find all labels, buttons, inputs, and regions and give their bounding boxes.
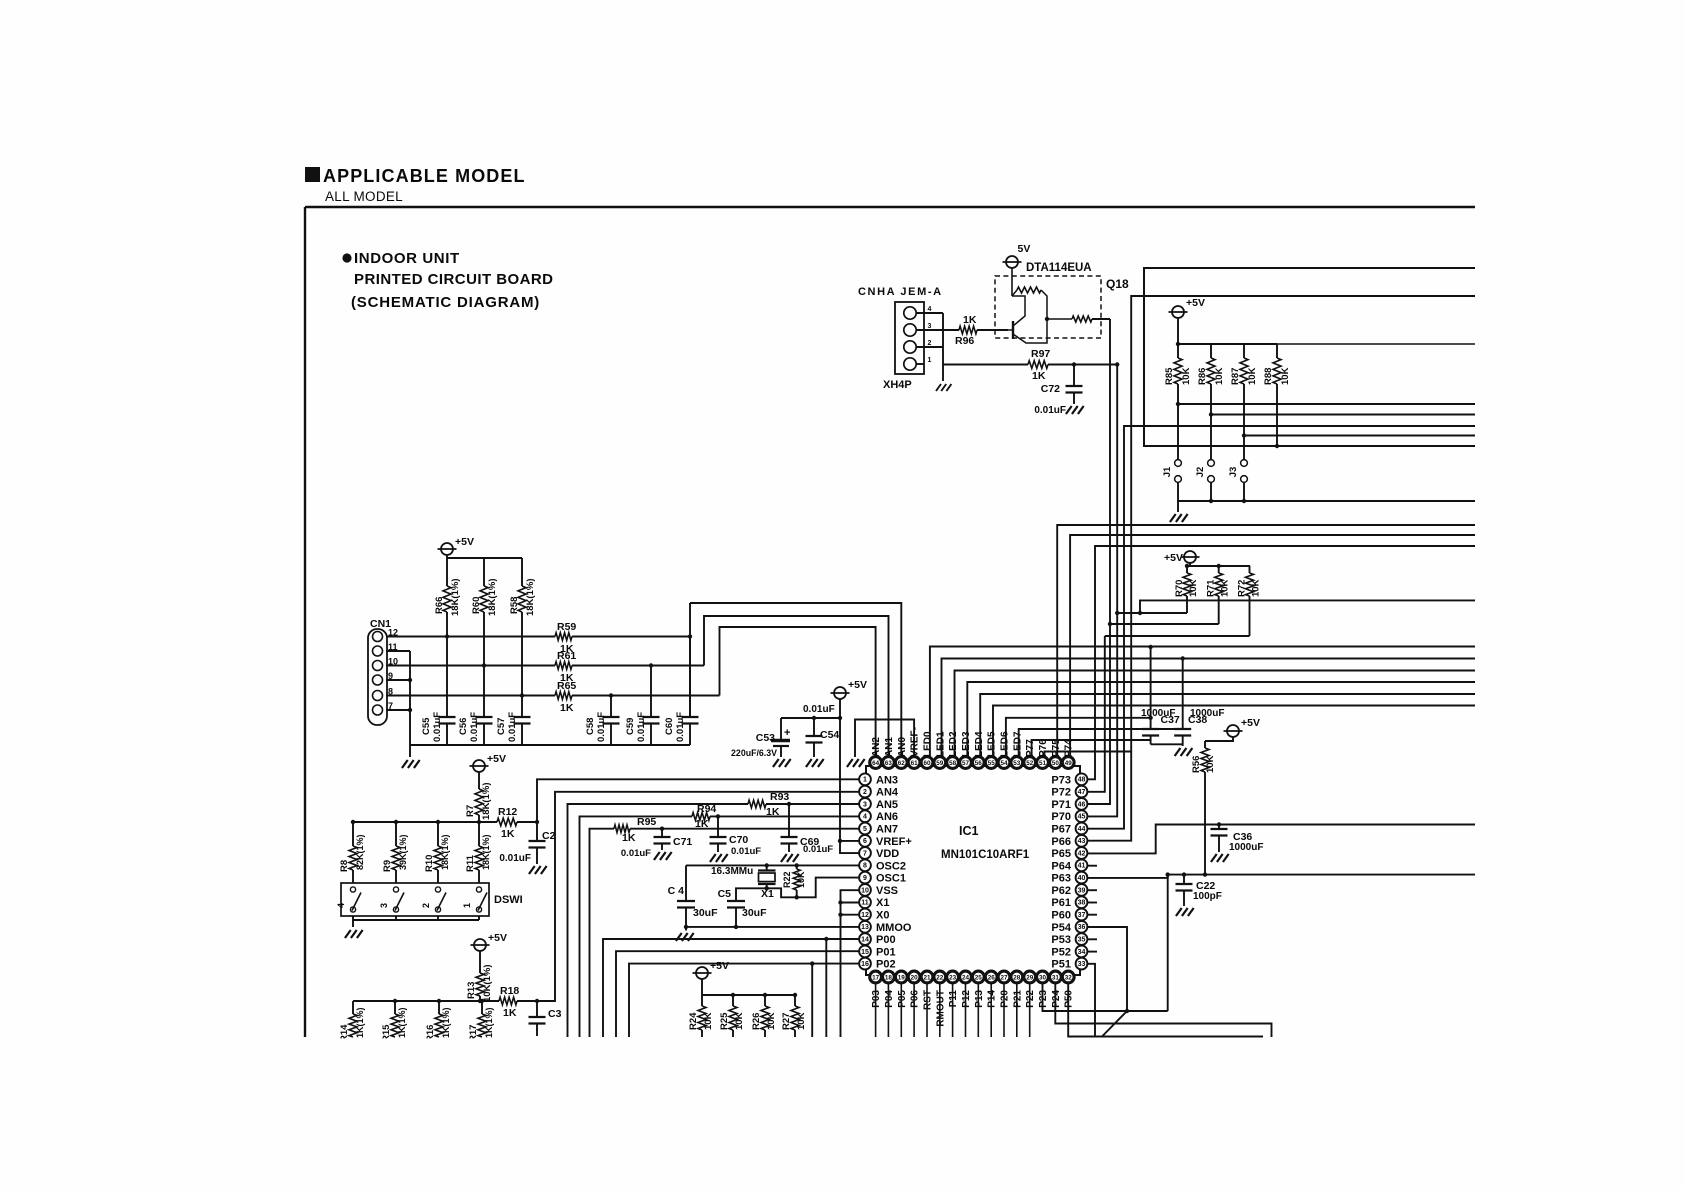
wire 5V into Q18 xyxy=(1011,268,1013,296)
svg-text:51: 51 xyxy=(1039,760,1047,767)
wire MMOD/ground rail xyxy=(686,926,860,928)
wire P66 net xyxy=(1087,296,1475,841)
svg-text:18K(1%): 18K(1%) xyxy=(525,579,536,617)
svg-text:18K(1%): 18K(1%) xyxy=(450,579,461,617)
IC1 left pins 1-16 xyxy=(859,773,912,970)
svg-text:0.01uF: 0.01uF xyxy=(675,712,686,742)
svg-text:28: 28 xyxy=(1013,974,1021,981)
resistor R59 1K xyxy=(555,633,572,641)
svg-text:X1: X1 xyxy=(876,897,889,909)
wire P02 branch down xyxy=(811,964,813,1037)
svg-text:1K(1%): 1K(1%) xyxy=(397,1007,407,1038)
svg-text:61: 61 xyxy=(911,760,919,767)
resistor R13 10K(1%) xyxy=(479,951,481,973)
junction (611,695.5) xyxy=(609,693,613,697)
resistor R7 18K(1%) xyxy=(478,772,480,789)
svg-text:P01: P01 xyxy=(876,946,896,958)
svg-text:R13: R13 xyxy=(466,982,477,999)
wire P76 net xyxy=(1044,752,1131,757)
svg-text:0.01uF: 0.01uF xyxy=(731,846,761,857)
ground xyxy=(806,759,812,767)
svg-text:P06: P06 xyxy=(910,990,921,1008)
svg-text:C3: C3 xyxy=(548,1008,562,1020)
wire XH4P pin stubs to ground bus xyxy=(916,312,943,314)
junction (826.3,939) xyxy=(824,937,828,941)
svg-text:P03: P03 xyxy=(871,990,882,1008)
resistor R25 10K xyxy=(732,995,734,1006)
svg-text:C60: C60 xyxy=(664,718,675,735)
ground xyxy=(345,930,351,938)
svg-text:AN1: AN1 xyxy=(884,737,895,757)
svg-text:10K: 10K xyxy=(1214,367,1225,385)
connector CN1 pin 11 xyxy=(373,646,383,656)
wire LED5 net xyxy=(993,706,1475,757)
svg-text:P02: P02 xyxy=(876,959,896,971)
svg-text:100pF: 100pF xyxy=(1193,891,1222,902)
svg-text:P71: P71 xyxy=(1051,799,1071,811)
svg-text:+: + xyxy=(784,727,790,739)
svg-text:P24: P24 xyxy=(1051,990,1062,1008)
svg-text:10K: 10K xyxy=(1220,579,1231,597)
power +5V R7 xyxy=(473,760,485,772)
svg-text:R70: R70 xyxy=(1174,580,1185,597)
svg-text:R88: R88 xyxy=(1263,368,1274,385)
svg-text:10K(1%): 10K(1%) xyxy=(482,965,493,1003)
svg-text:P20: P20 xyxy=(1000,990,1011,1008)
connector CN1 body xyxy=(368,629,387,725)
connector XH4P pin 1 xyxy=(904,358,916,370)
svg-text:CNHA JEM-A: CNHA JEM-A xyxy=(858,286,943,298)
power +5V rail R85-R88 xyxy=(1172,306,1184,318)
svg-text:(SCHEMATIC DIAGRAM): (SCHEMATIC DIAGRAM) xyxy=(351,294,540,311)
capacitor C37 1000uF xyxy=(1150,647,1152,729)
svg-text:C37: C37 xyxy=(1161,714,1180,726)
wire AN6 line xyxy=(580,816,693,1037)
svg-text:10K: 10K xyxy=(703,1012,714,1030)
wire CN1 pin10 line xyxy=(386,665,555,667)
svg-text:P51: P51 xyxy=(1051,959,1071,971)
svg-text:P67: P67 xyxy=(1051,824,1071,836)
svg-text:54: 54 xyxy=(1000,760,1008,767)
wire P00 net xyxy=(603,939,860,1037)
ground xyxy=(676,933,682,941)
wire P74 net xyxy=(1070,535,1475,757)
svg-text:C57: C57 xyxy=(496,718,507,735)
capacitor C60 0.01uF xyxy=(689,637,691,718)
svg-text:P70: P70 xyxy=(1051,811,1071,823)
wire P24 net xyxy=(1055,983,1271,1037)
svg-text:P54: P54 xyxy=(1051,922,1071,934)
junction (840.5,914.7) xyxy=(838,913,842,917)
junction (765,995) xyxy=(763,993,767,997)
switch DSW1 body xyxy=(341,883,489,916)
resistor R12 1K xyxy=(497,818,517,826)
wire R70 to P70 line xyxy=(1117,612,1187,614)
svg-text:OSC2: OSC2 xyxy=(876,860,906,872)
svg-text:1K(1%): 1K(1%) xyxy=(441,1007,451,1038)
svg-text:22: 22 xyxy=(936,974,944,981)
resistor R26 10K xyxy=(764,995,766,1006)
capacitor C38 1000uF xyxy=(1182,658,1184,729)
resistor R65 1K xyxy=(555,692,572,700)
svg-text:P13: P13 xyxy=(974,990,985,1008)
capacitor C22 100pF xyxy=(1183,875,1185,884)
svg-text:R93: R93 xyxy=(770,791,789,803)
svg-text:33: 33 xyxy=(1078,961,1086,968)
svg-text:18K(1%): 18K(1%) xyxy=(440,834,450,870)
svg-text:62: 62 xyxy=(898,760,906,767)
svg-text:R59: R59 xyxy=(557,621,576,633)
transistor Q18 body xyxy=(1012,321,1014,339)
svg-text:Q18: Q18 xyxy=(1106,277,1129,291)
junction (840.5,902.5) xyxy=(838,900,842,904)
capacitor C59 0.01uF xyxy=(650,666,652,718)
svg-text:39K(1%): 39K(1%) xyxy=(398,834,408,870)
wire VDD net xyxy=(840,699,860,853)
junction (1127,1011) xyxy=(1125,1009,1129,1013)
header black square xyxy=(305,167,320,182)
svg-text:R66: R66 xyxy=(434,597,445,614)
resistor R10 18K(1%) xyxy=(437,822,439,846)
svg-text:18K(1%): 18K(1%) xyxy=(481,834,491,870)
svg-text:MMOO: MMOO xyxy=(876,922,912,934)
junction (840,840.9) xyxy=(838,839,842,843)
wire R97 to bus xyxy=(1048,364,1117,366)
svg-text:1K: 1K xyxy=(501,828,515,840)
svg-text:55: 55 xyxy=(988,760,996,767)
wire AN2 line xyxy=(720,627,876,757)
resistor R61 1K xyxy=(555,662,572,670)
junction (1110,624) xyxy=(1108,622,1112,626)
svg-text:18K(1%): 18K(1%) xyxy=(487,579,498,617)
wire Q18 output xyxy=(1092,318,1110,320)
svg-text:30: 30 xyxy=(1039,974,1047,981)
svg-text:1K: 1K xyxy=(963,314,977,326)
svg-text:OSC1: OSC1 xyxy=(876,873,906,885)
junction (410,680) xyxy=(408,678,412,682)
junction (651,665.5) xyxy=(649,663,653,667)
svg-text:10K: 10K xyxy=(796,871,806,888)
svg-text:DSWI: DSWI xyxy=(494,894,523,906)
svg-text:17: 17 xyxy=(872,974,880,981)
svg-text:3: 3 xyxy=(379,903,389,908)
switch DSW1 pole 2 xyxy=(435,887,440,892)
frame border top xyxy=(305,206,1475,208)
resistor R60 18K(1%) xyxy=(483,558,485,586)
junction (1074,364.5) xyxy=(1072,362,1076,366)
svg-text:P14: P14 xyxy=(987,990,998,1008)
svg-text:0.01uF: 0.01uF xyxy=(499,853,531,864)
junction (480,1001) xyxy=(478,999,482,1003)
crystal X1 xyxy=(766,865,768,870)
wire AN7 line xyxy=(590,829,615,1037)
ground xyxy=(1170,514,1176,522)
capacitor C5 30uF xyxy=(727,900,745,902)
svg-text:47: 47 xyxy=(1078,789,1086,796)
junction (1140,613) xyxy=(1138,611,1142,615)
svg-text:1K(1%): 1K(1%) xyxy=(484,1007,494,1038)
svg-text:10K: 10K xyxy=(1181,367,1192,385)
wire CN1 pin11 to ground bus xyxy=(386,650,410,652)
wire R59 to AN0 riser xyxy=(572,636,690,638)
power +5V VDD xyxy=(834,687,846,699)
svg-text:P62: P62 xyxy=(1051,885,1071,897)
capacitor C56 0.01uF xyxy=(483,666,485,718)
svg-text:13: 13 xyxy=(861,924,869,931)
capacitor C58 0.01uF xyxy=(610,696,612,718)
svg-text:C54: C54 xyxy=(820,729,839,741)
svg-text:2: 2 xyxy=(928,340,932,347)
wire +5V rail tail xyxy=(1277,343,1475,345)
frame border left xyxy=(304,207,306,1037)
svg-text:0.01uF: 0.01uF xyxy=(803,704,835,715)
svg-text:56: 56 xyxy=(975,760,983,767)
wire bypass rail xyxy=(781,717,840,719)
svg-text:P73: P73 xyxy=(1051,774,1071,786)
capacitor C57 0.01uF xyxy=(521,696,523,718)
wire R65 to AN2 riser xyxy=(572,695,720,697)
resistor R14 1K(1%) xyxy=(352,1001,354,1014)
svg-text:P65: P65 xyxy=(1051,848,1071,860)
wire VREF- to ground xyxy=(855,720,914,758)
svg-text:52: 52 xyxy=(1026,760,1034,767)
svg-text:+5V: +5V xyxy=(455,536,474,548)
svg-text:APPLICABLE MODEL: APPLICABLE MODEL xyxy=(323,166,526,186)
jumper J1 xyxy=(1175,460,1182,467)
svg-text:R26: R26 xyxy=(751,1013,762,1030)
svg-text:0.01uF: 0.01uF xyxy=(432,712,443,742)
svg-text:16: 16 xyxy=(861,961,869,968)
svg-text:59: 59 xyxy=(936,760,944,767)
svg-text:R87: R87 xyxy=(1230,368,1241,385)
wire R95 to IC pin5 xyxy=(630,828,860,830)
resistor R86 10K xyxy=(1210,344,1212,358)
wire R97 net down to P70 xyxy=(1087,365,1117,817)
junction (766.7,865.4) xyxy=(765,863,769,867)
junction (439,1001) xyxy=(437,999,441,1003)
svg-text:0.01uF: 0.01uF xyxy=(1034,405,1066,416)
svg-text:35: 35 xyxy=(1078,937,1086,944)
svg-text:3: 3 xyxy=(928,323,932,330)
wire LED0 net xyxy=(930,647,1475,757)
switch DSW1 pole 3 xyxy=(393,887,398,892)
wire P50 net xyxy=(1068,983,1263,1037)
svg-text:P64: P64 xyxy=(1051,860,1071,872)
ground xyxy=(654,852,660,860)
wire AN0 line xyxy=(690,603,901,757)
svg-text:VSS: VSS xyxy=(876,885,898,897)
junction (1167.7,874.6) xyxy=(1166,872,1170,876)
wire OSC1 line xyxy=(736,878,860,901)
svg-text:18: 18 xyxy=(885,974,893,981)
svg-text:C 4: C 4 xyxy=(668,885,685,897)
IC1 top pins 64-49 xyxy=(870,727,1075,768)
wire CN1 ground rail xyxy=(410,744,690,746)
svg-text:0.01uF: 0.01uF xyxy=(507,712,518,742)
junction (733,995) xyxy=(731,993,735,997)
wire P52 stub xyxy=(1087,951,1097,953)
power +5V R70-R72 xyxy=(1184,551,1196,563)
wire P60 stub xyxy=(1087,914,1097,916)
svg-text:40: 40 xyxy=(1078,875,1086,882)
svg-text:P72: P72 xyxy=(1051,787,1071,799)
ground xyxy=(1066,406,1072,414)
svg-text:23: 23 xyxy=(949,974,957,981)
svg-text:VDD: VDD xyxy=(876,848,899,860)
svg-text:VREF+: VREF+ xyxy=(876,836,912,848)
junction (395,1001) xyxy=(393,999,397,1003)
svg-text:10: 10 xyxy=(861,887,869,894)
capacitor C72 0.01uF xyxy=(1073,365,1075,387)
svg-text:11: 11 xyxy=(861,900,869,907)
ground xyxy=(773,759,779,767)
resistor R27 10K xyxy=(794,995,796,1006)
svg-text:R94: R94 xyxy=(697,803,716,815)
wire Q18 output net down to P71 xyxy=(1087,319,1110,804)
svg-text:P04: P04 xyxy=(884,990,895,1008)
svg-text:INDOOR UNIT: INDOOR UNIT xyxy=(354,250,460,267)
wire P51 net xyxy=(1087,964,1095,1037)
junction (736,926.9) xyxy=(734,925,738,929)
wire AN3 rail xyxy=(353,821,497,823)
wire P62 stub xyxy=(1087,889,1097,891)
svg-text:31: 31 xyxy=(1052,974,1060,981)
IC1 right pins 48-33 xyxy=(1051,773,1087,970)
svg-text:R72: R72 xyxy=(1237,580,1248,597)
resistor R8 82K(1%) xyxy=(352,822,354,846)
svg-text:0.01uF: 0.01uF xyxy=(636,712,647,742)
svg-text:2: 2 xyxy=(863,789,867,796)
capacitor C70 0.01uF xyxy=(717,816,719,837)
svg-text:C53: C53 xyxy=(756,732,775,744)
svg-text:P12: P12 xyxy=(961,990,972,1008)
svg-text:10K: 10K xyxy=(734,1012,745,1030)
svg-text:10K: 10K xyxy=(766,1012,777,1030)
resistor R88 10K xyxy=(1276,344,1278,358)
svg-text:34: 34 xyxy=(1078,949,1086,956)
junction (353,822) xyxy=(351,820,355,824)
wire R12 to C2 node xyxy=(517,821,537,823)
connector XH4P body xyxy=(895,302,924,374)
wire R18 to C3 node xyxy=(517,1000,537,1002)
wire LED3 net xyxy=(967,682,1475,757)
svg-text:1K: 1K xyxy=(503,1007,517,1019)
resistor R17 1K(1%) xyxy=(481,1001,483,1014)
wire P53 stub xyxy=(1087,938,1097,940)
svg-text:4: 4 xyxy=(336,903,346,908)
svg-text:+5V: +5V xyxy=(1241,717,1260,729)
svg-text:R12: R12 xyxy=(498,806,517,818)
svg-text:1: 1 xyxy=(928,357,932,364)
capacitor C4 30uF xyxy=(685,865,687,901)
connector CN1 pin 10 xyxy=(373,661,383,671)
svg-text:7: 7 xyxy=(863,850,867,857)
svg-text:18K(1%): 18K(1%) xyxy=(481,783,492,821)
svg-text:30uF: 30uF xyxy=(693,907,718,919)
junction (1205,874.6) xyxy=(1203,872,1207,876)
wire XH4P pin1 to R97 xyxy=(916,363,924,365)
svg-text:R61: R61 xyxy=(557,650,576,662)
resistor R70 10K xyxy=(1186,566,1188,573)
resistor R97 1K xyxy=(1028,361,1048,369)
svg-text:C58: C58 xyxy=(585,718,596,735)
ground xyxy=(1211,854,1217,862)
svg-text:24: 24 xyxy=(962,974,970,981)
resistor R18 1K xyxy=(499,997,517,1005)
svg-text:LED0: LED0 xyxy=(923,731,934,757)
junction (662,828.7) xyxy=(660,827,664,831)
svg-text:J3: J3 xyxy=(1228,467,1239,478)
svg-text:20: 20 xyxy=(911,974,919,981)
junction (796.7,897.3) xyxy=(795,895,799,899)
svg-text:IC1: IC1 xyxy=(959,824,979,838)
svg-text:P53: P53 xyxy=(1051,934,1071,946)
svg-text:0.01uF: 0.01uF xyxy=(469,712,480,742)
wire R86 to J2 and bus xyxy=(1210,384,1212,460)
svg-text:43: 43 xyxy=(1078,838,1086,845)
svg-text:AN3: AN3 xyxy=(876,774,898,786)
junction (1277,446) xyxy=(1275,444,1279,448)
svg-text:R25: R25 xyxy=(719,1012,730,1030)
svg-text:R58: R58 xyxy=(509,597,520,614)
wire P61 stub xyxy=(1087,902,1097,904)
connector CN1 pin 12 xyxy=(373,632,383,642)
resistor R11 18K(1%) xyxy=(478,822,480,846)
svg-text:J2: J2 xyxy=(1195,467,1206,478)
svg-text:AN5: AN5 xyxy=(876,799,898,811)
svg-text:R95: R95 xyxy=(637,816,656,828)
wire XH4P pin3 to R96 xyxy=(916,329,959,331)
svg-text:C71: C71 xyxy=(673,836,692,848)
resistor R85 10K xyxy=(1177,344,1179,358)
svg-text:27: 27 xyxy=(1000,974,1008,981)
svg-text:10K: 10K xyxy=(1188,579,1199,597)
jumper J3 xyxy=(1241,460,1248,467)
connector CN1 pin 8 xyxy=(373,691,383,701)
junction (814,718) xyxy=(812,716,816,720)
svg-text:10K: 10K xyxy=(1251,579,1262,597)
svg-text:P50: P50 xyxy=(1064,990,1075,1008)
wire P67 net xyxy=(1087,426,1475,829)
resistor Q18 internal collector xyxy=(1072,316,1092,322)
svg-text:C72: C72 xyxy=(1041,383,1060,395)
svg-text:R86: R86 xyxy=(1197,368,1208,385)
svg-text:63: 63 xyxy=(885,760,893,767)
junction (484,665.5) xyxy=(482,663,486,667)
svg-text:J1: J1 xyxy=(1162,466,1173,477)
connector XH4P pin 2 xyxy=(904,341,916,353)
svg-text:41: 41 xyxy=(1078,863,1086,870)
ground xyxy=(847,759,853,767)
resistor R96 1K xyxy=(959,326,977,334)
svg-text:10K: 10K xyxy=(1205,755,1216,773)
resistor R66 18K(1%) xyxy=(446,558,448,586)
wire R94 to IC pin4 xyxy=(710,815,860,817)
svg-text:P21: P21 xyxy=(1012,990,1023,1008)
svg-text:36: 36 xyxy=(1078,924,1086,931)
junction (1218.7,566) xyxy=(1217,564,1221,568)
resistor R94 1K xyxy=(692,813,710,821)
junction (482,1001) xyxy=(480,999,484,1003)
jumper J2 xyxy=(1208,460,1215,467)
capacitor C54 0.01uF xyxy=(813,718,815,736)
svg-text:1: 1 xyxy=(462,903,472,908)
svg-text:39: 39 xyxy=(1078,887,1086,894)
svg-text:R60: R60 xyxy=(471,597,482,614)
title INDOOR UNIT xyxy=(342,253,351,262)
wire CN1 pin12 line xyxy=(386,636,555,638)
wire CN1 pin8 line xyxy=(386,695,555,697)
